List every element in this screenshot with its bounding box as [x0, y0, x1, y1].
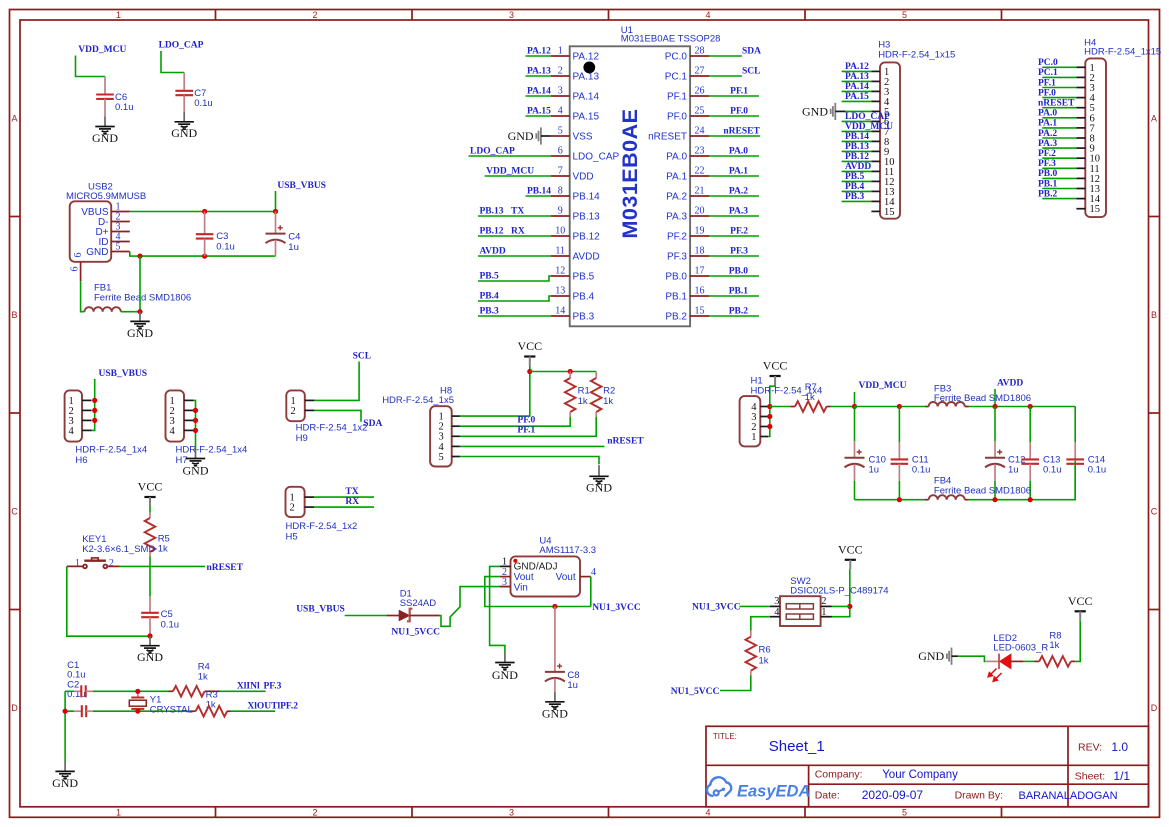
svg-text:PB.14: PB.14 [573, 192, 601, 203]
junction VCC node [527, 369, 532, 374]
wire net PA.13 to U1 pin 2 [526, 75, 551, 77]
svg-text:1k: 1k [578, 396, 588, 407]
wire net PA.12 to U1 pin 1 [526, 55, 551, 57]
svg-text:2: 2 [558, 66, 563, 77]
wire U4 pin1 to GND [490, 566, 505, 652]
svg-text:AVDD: AVDD [845, 162, 871, 172]
wire net PB.1 to H4 pin 13 [1042, 188, 1076, 190]
net label PA.15 at H3 [845, 92, 869, 102]
wire bottom rail right of FB4 [969, 461, 1076, 500]
svg-text:0.1u: 0.1u [194, 98, 213, 109]
net flag nRESET at H8 [607, 437, 644, 447]
regulator U4 AMS1117-3.3 [500, 536, 596, 597]
U1 pin 18 PF.3 [667, 246, 709, 263]
wire R5 to C5 through nRESET node [149, 557, 151, 597]
svg-text:2: 2 [290, 503, 295, 514]
svg-text:6: 6 [73, 253, 84, 258]
U1 pin 16 PB.1 [665, 286, 709, 303]
svg-text:XlOUTlPF.2: XlOUTlPF.2 [247, 701, 298, 711]
net label PF.0 [730, 107, 748, 117]
wire net PF.0 to H4 pin 4 [1042, 97, 1076, 99]
svg-text:PB.13: PB.13 [573, 212, 601, 223]
net flag nRESET at KEY1 [207, 563, 244, 573]
svg-text:SDA: SDA [742, 46, 761, 56]
svg-text:B: B [11, 310, 17, 320]
svg-text:M031EB0AE: M031EB0AE [618, 109, 642, 239]
svg-text:BARANALADOGAN: BARANALADOGAN [1019, 790, 1118, 802]
U1 pin 15 PB.2 [665, 306, 709, 323]
svg-text:5: 5 [902, 10, 907, 20]
svg-text:PA.1: PA.1 [729, 167, 748, 177]
ground below C5 [137, 636, 163, 664]
junctions H7 pins 2-4 [193, 408, 198, 433]
svg-text:PA.12: PA.12 [527, 47, 551, 57]
svg-text:PA.2: PA.2 [1038, 129, 1057, 139]
svg-text:PF.2: PF.2 [667, 232, 687, 243]
svg-text:0.1u: 0.1u [216, 241, 235, 252]
wire USB_VBUS down H6 pins [92, 379, 95, 430]
net label nRESET at H4 [1038, 99, 1075, 109]
net flag USB_VBUS top [277, 181, 326, 191]
net label PF.1 at H4 [1038, 78, 1056, 88]
resistor R1 1k [565, 372, 590, 418]
net flag SDA [363, 419, 382, 429]
svg-text:PF.0: PF.0 [1038, 88, 1056, 98]
svg-text:0.1u: 0.1u [161, 619, 180, 630]
svg-text:LDO_CAP: LDO_CAP [470, 147, 515, 157]
junction VDD_MCU C10 [852, 404, 857, 409]
svg-text:PA.14: PA.14 [573, 92, 600, 103]
svg-text:SS24AD: SS24AD [400, 598, 437, 609]
svg-text:B: B [1151, 310, 1157, 320]
wire H7 pins to GND [194, 400, 196, 448]
ground at U1 pin 5 VSS [508, 127, 551, 144]
net label PB.5 at H3 [845, 172, 865, 182]
svg-text:Date:: Date: [815, 790, 840, 802]
svg-text:10: 10 [555, 226, 565, 237]
svg-text:VCC: VCC [763, 359, 788, 373]
svg-text:VCC: VCC [838, 542, 863, 556]
svg-text:PF.0: PF.0 [517, 416, 535, 426]
svg-text:H9: H9 [296, 433, 308, 444]
wire net PA.3 to H4 pin 9 [1042, 147, 1076, 149]
connector H6 HDR-F-2.54_1x4 [65, 390, 148, 466]
U1 pin 24 nRESET [648, 126, 709, 143]
capacitor C1 [65, 685, 93, 697]
wire net LDO_CAP to U1 pin 6 [469, 155, 551, 157]
svg-text:PB.4: PB.4 [573, 292, 595, 303]
net flag USB_VBUS at H6 [99, 369, 148, 379]
net label PF.1 [730, 87, 748, 97]
wire H9 pin2 SDA [314, 410, 361, 421]
svg-text:5: 5 [902, 808, 907, 818]
svg-text:Drawn By:: Drawn By: [955, 790, 1003, 802]
junction C13 bottom [1028, 497, 1033, 502]
svg-text:0.1u: 0.1u [115, 102, 134, 113]
junction C5 bottom [147, 633, 152, 638]
svg-text:K2-3.6×6.1_SMD: K2-3.6×6.1_SMD [82, 544, 155, 555]
net label PB.2 [729, 307, 749, 317]
wire VCC to H8 pin1 [460, 366, 530, 416]
svg-text:PB.2: PB.2 [665, 312, 687, 323]
svg-text:0.1u: 0.1u [1088, 464, 1107, 475]
wire net PF.2 from U1 pin 19 [709, 235, 759, 237]
junction C11 top [897, 404, 902, 409]
wire net PB.14 to H3 pin 8 [842, 140, 872, 142]
wire net AVDD to U1 pin 11 [478, 255, 551, 257]
svg-text:9: 9 [558, 206, 563, 217]
capacitor C5 [141, 596, 179, 636]
net label PA.15 [527, 107, 551, 117]
U1 pin 7 VDD [551, 166, 594, 183]
junction crystal bottom [135, 709, 140, 714]
svg-text:VDD_MCU: VDD_MCU [78, 45, 126, 55]
net label PA.3 [729, 207, 748, 217]
net label LDO_CAP [470, 147, 515, 157]
wire H1 pin4 to R7 [770, 406, 791, 408]
net label PA.0 [729, 147, 748, 157]
svg-text:HDR-F-2.54_1x4: HDR-F-2.54_1x4 [75, 444, 147, 455]
svg-text:M031EB0AE TSSOP28: M031EB0AE TSSOP28 [621, 34, 721, 45]
svg-text:26: 26 [695, 86, 705, 97]
connector H5 HDR-F-2.54_1x2 [286, 487, 358, 543]
net label PF.1 [517, 426, 535, 436]
switch SW2 DSIC02LS-P_C489174 [770, 576, 889, 626]
junctions H1 pins [767, 404, 772, 429]
net flag LDO_CAP [159, 41, 204, 51]
svg-text:LED-0603_R: LED-0603_R [993, 643, 1048, 654]
pushbutton KEY1 K2-3.6x6.1_SMD [67, 534, 156, 569]
power flag VCC above H1 [763, 359, 788, 386]
U1 pin 22 PA.1 [666, 166, 709, 183]
svg-text:PA.12: PA.12 [845, 62, 869, 72]
wire H8 pin5 to GND [460, 457, 599, 465]
net label PB.12 at H3 [845, 152, 869, 162]
svg-text:R6: R6 [759, 645, 771, 656]
svg-text:nRESET: nRESET [1038, 99, 1075, 109]
svg-text:NU1_5VCC: NU1_5VCC [391, 628, 440, 638]
wire LED2 to R8 [1024, 660, 1035, 662]
svg-text:2: 2 [312, 10, 317, 20]
svg-text:C: C [11, 507, 18, 517]
wire net PB.1 from U1 pin 16 [709, 295, 759, 297]
net label PB.14 at H3 [845, 132, 869, 142]
net flag USB_VBUS at D1 [296, 605, 345, 615]
wire net PF.0 from U1 pin 25 [709, 115, 759, 117]
wire net PB.2 to H4 pin 14 [1042, 198, 1076, 200]
ground at H3 pin 5 [802, 103, 871, 120]
ground below H8 pin5 [586, 465, 612, 495]
wire net nRESET to H4 pin 5 [1042, 107, 1076, 109]
svg-text:PB.12: PB.12 [845, 152, 869, 162]
net label AVDD [480, 247, 506, 257]
net flag VDD_MCU at rail [855, 381, 907, 406]
wire net PB.3 to U1 pin 14 [478, 315, 551, 317]
svg-text:PA.2: PA.2 [729, 187, 748, 197]
svg-text:PF.1: PF.1 [517, 426, 535, 436]
svg-text:Your Company: Your Company [882, 769, 958, 781]
U1 pin 10 PB.12 [551, 226, 600, 243]
wire H5 pin1 TX [314, 496, 374, 498]
svg-text:PF.3: PF.3 [667, 252, 687, 263]
net label PB.13 [480, 207, 525, 217]
resistor R8 1k [1035, 631, 1076, 667]
wire net PB.13 to U1 pin 9 [478, 215, 551, 217]
ferrite bead FB1 [85, 283, 192, 312]
net label PA.12 [527, 47, 551, 57]
IC U1 M031EB0AE TSSOP28 [570, 25, 721, 327]
net flag AVDD [995, 379, 1023, 407]
svg-text:4: 4 [705, 10, 710, 20]
net flag NU1_3VCC at SW2 [692, 602, 741, 612]
wire net PC.1 to H4 pin 2 [1042, 76, 1076, 78]
svg-text:H5: H5 [286, 532, 298, 543]
wire net PB.2 from U1 pin 15 [709, 315, 759, 317]
svg-text:25: 25 [695, 106, 705, 117]
wire XIN line [93, 690, 169, 692]
svg-text:GND: GND [918, 649, 944, 663]
svg-text:PF.1: PF.1 [667, 92, 687, 103]
svg-text:nRESET: nRESET [607, 437, 644, 447]
svg-text:1k: 1k [805, 392, 815, 403]
svg-text:C3: C3 [216, 231, 228, 242]
diode D1 SS24AD [387, 588, 440, 621]
svg-text:1: 1 [75, 558, 80, 569]
svg-text:HDR-F-2.54_1x15: HDR-F-2.54_1x15 [878, 49, 955, 60]
wire net nRESET from U1 pin 24 [709, 135, 760, 137]
svg-text:15: 15 [1090, 204, 1101, 215]
wire VDD_MCU to C6 [76, 56, 106, 77]
svg-text:PB.4: PB.4 [845, 182, 865, 192]
svg-text:VCC: VCC [1068, 594, 1093, 608]
net label PA.2 at H4 [1038, 129, 1057, 139]
net label PA.1 at H4 [1038, 119, 1057, 129]
svg-text:4: 4 [170, 426, 176, 437]
svg-text:5: 5 [558, 126, 563, 137]
svg-text:1u: 1u [1008, 464, 1019, 475]
U1 pin 26 PF.1 [667, 86, 709, 103]
power flag VCC above R8 [1068, 594, 1093, 621]
wire net PF.3 from U1 pin 18 [709, 255, 759, 257]
wire net LDO_CAP to H3 pin 6 [842, 120, 872, 122]
U1 pin 23 PA.0 [666, 146, 709, 163]
U1 pin 13 PB.4 [551, 286, 595, 303]
svg-text:SCL: SCL [353, 352, 371, 362]
svg-text:PA.0: PA.0 [729, 147, 748, 157]
svg-text:RX: RX [345, 497, 359, 507]
svg-text:GND: GND [127, 326, 153, 340]
svg-text:PB.2: PB.2 [1038, 189, 1058, 199]
frame column numbers bottom [116, 808, 907, 818]
svg-text:3: 3 [558, 86, 563, 97]
svg-text:PA.13: PA.13 [527, 67, 551, 77]
frame row letters [11, 114, 1158, 714]
svg-text:22: 22 [695, 166, 705, 177]
wire H8 pin4 nRESET [460, 445, 605, 447]
net label SDA [742, 46, 761, 56]
capacitor C11 [891, 407, 931, 500]
ground below FB1 [127, 312, 153, 340]
svg-text:PC.0: PC.0 [1038, 58, 1058, 68]
svg-text:PA.0: PA.0 [1038, 109, 1057, 119]
U1 pin 21 PA.2 [666, 186, 709, 203]
U1 pin 28 PC.0 [665, 46, 710, 63]
svg-text:D: D [1151, 703, 1158, 713]
svg-text:USB_VBUS: USB_VBUS [296, 605, 345, 615]
svg-text:1u: 1u [567, 680, 578, 691]
svg-text:PB.5: PB.5 [480, 272, 500, 282]
svg-text:A: A [11, 114, 17, 124]
svg-text:PC.1: PC.1 [665, 72, 688, 83]
svg-text:PA.15: PA.15 [573, 112, 600, 123]
net label PB.12 [480, 227, 525, 237]
svg-text:HDR-F-2.54_1x2: HDR-F-2.54_1x2 [286, 521, 358, 532]
wire net PA.1 from U1 pin 22 [709, 175, 759, 177]
net label PB.5 [480, 272, 500, 282]
svg-text:5: 5 [116, 242, 121, 253]
wire KEY1 pin1 loop down [67, 566, 150, 636]
power flag VCC above SW2 [838, 542, 863, 569]
svg-text:EasyEDA: EasyEDA [737, 783, 810, 801]
wire net PA.14 to U1 pin 3 [526, 95, 551, 97]
resistor R5 1k [145, 513, 170, 557]
svg-text:VSS: VSS [573, 132, 593, 143]
wire GND jog from USB pin5 [130, 252, 276, 257]
svg-text:REV:: REV: [1078, 742, 1102, 754]
power flag VCC above R5 [138, 479, 163, 506]
wire LDO_CAP to C7 [161, 51, 184, 73]
wire net PF.3 to H4 pin 11 [1042, 167, 1076, 169]
net label PF.2 [730, 227, 748, 237]
svg-text:PF.3: PF.3 [1038, 159, 1056, 169]
wire net PA.3 from U1 pin 20 [709, 215, 759, 217]
capacitor C8 polarized [545, 607, 580, 693]
wire net PB.0 from U1 pin 17 [709, 275, 759, 277]
svg-text:4: 4 [69, 426, 75, 437]
wire net PA.13 to H3 pin 2 [842, 80, 872, 82]
svg-text:SDA: SDA [363, 419, 382, 429]
net label PF.3 [730, 247, 748, 257]
net label PA.1 [729, 167, 748, 177]
svg-text:13: 13 [555, 286, 565, 297]
svg-text:USB_VBUS: USB_VBUS [99, 369, 148, 379]
svg-text:GND: GND [802, 104, 828, 118]
net label PB.4 [480, 292, 500, 302]
svg-text:HDR-F-2.54_1x2: HDR-F-2.54_1x2 [296, 422, 368, 433]
capacitor C10 polarized [845, 407, 886, 500]
wire net PF.1 to H4 pin 3 [1042, 87, 1076, 89]
net label PC.1 at H4 [1038, 68, 1058, 78]
wire GND rail down [139, 256, 141, 312]
net label PB.3 at H3 [845, 192, 865, 202]
net label PA.14 at H3 [845, 82, 869, 92]
svg-text:Vout: Vout [514, 572, 534, 583]
net label PB.13 at H3 [845, 142, 869, 152]
net label PB.14 [527, 187, 551, 197]
svg-text:NU1_3VCC: NU1_3VCC [692, 602, 741, 612]
svg-text:PB.13: PB.13 [480, 207, 504, 217]
net label VDD_MCU [486, 167, 534, 177]
svg-text:14: 14 [555, 306, 565, 317]
svg-text:PA.13: PA.13 [845, 72, 869, 82]
svg-text:5: 5 [439, 452, 444, 463]
svg-text:27: 27 [695, 66, 705, 77]
svg-text:4: 4 [558, 106, 563, 117]
wire net PB.5 to U1 pin 12 [478, 276, 551, 281]
wire bottom rail left of FB4 [855, 499, 926, 501]
wire H8 pin3 PF.1 to R2 [460, 417, 596, 436]
svg-text:PF.3: PF.3 [730, 247, 748, 257]
svg-text:TX: TX [511, 207, 524, 217]
svg-text:PA.15: PA.15 [527, 107, 551, 117]
ground below C7 [171, 112, 197, 140]
svg-text:PB.3: PB.3 [845, 192, 865, 202]
svg-text:15: 15 [695, 306, 705, 317]
wire net SCL from U1 pin 27 [709, 75, 742, 77]
svg-text:PB.2: PB.2 [729, 307, 749, 317]
wire net PB.4 to U1 pin 13 [478, 296, 551, 301]
svg-text:20: 20 [695, 206, 705, 217]
svg-text:Ferrite Bead SMD1806: Ferrite Bead SMD1806 [94, 292, 191, 303]
svg-text:0.1u: 0.1u [1043, 464, 1062, 475]
svg-text:PF.2: PF.2 [730, 227, 748, 237]
U1 pin 6 LDO_CAP [551, 146, 620, 163]
wire USB_VBUS down to VBUS rail [275, 191, 277, 212]
wire R7 to VDD_MCU node [831, 406, 855, 408]
junctions H6 pins 1-3 [92, 398, 97, 423]
net label SCL [742, 66, 760, 76]
wire D1 to U4 Vin [440, 587, 509, 627]
U1 pin 2 PA.13 [551, 66, 600, 83]
svg-text:PA.1: PA.1 [666, 172, 687, 183]
svg-text:Sheet_1: Sheet_1 [769, 738, 825, 755]
wire VBUS rail [130, 211, 276, 213]
U1 pin 9 PB.13 [551, 206, 600, 223]
svg-text:VCC: VCC [517, 339, 542, 353]
svg-text:PA.12: PA.12 [573, 52, 600, 63]
svg-text:AVDD: AVDD [997, 379, 1023, 389]
LED LED2 LED-0603 [985, 633, 1048, 681]
wire net PA.0 from U1 pin 23 [709, 155, 759, 157]
svg-text:1/1: 1/1 [1113, 769, 1130, 783]
svg-text:PA.3: PA.3 [666, 212, 687, 223]
svg-text:LDO_CAP: LDO_CAP [845, 112, 890, 122]
U1 pin 20 PA.3 [666, 206, 709, 223]
net label nRESET [723, 127, 760, 137]
ground below C8 [542, 692, 568, 720]
svg-text:H6: H6 [75, 455, 87, 466]
svg-text:PF.3: PF.3 [264, 681, 282, 691]
ground below C6 [92, 116, 118, 144]
wire net VDD_MCU to H3 pin 7 [842, 130, 872, 132]
net label PA.13 [527, 67, 551, 77]
svg-text:D: D [11, 703, 18, 713]
junction FB1 output [137, 309, 142, 314]
wire net PF.1 from U1 pin 26 [709, 95, 759, 97]
resistor R6 1k [746, 631, 771, 676]
junction C13 top [1028, 404, 1033, 409]
net flag NU1_5VCC at D1 [391, 628, 440, 638]
net label PB.3 [480, 307, 500, 317]
title block [706, 726, 1149, 807]
net label PA.3 at H4 [1038, 139, 1057, 149]
svg-text:2020-09-07: 2020-09-07 [862, 788, 924, 802]
svg-text:VDD_MCU: VDD_MCU [859, 381, 907, 391]
svg-text:3: 3 [774, 596, 779, 607]
svg-text:PA.3: PA.3 [729, 207, 748, 217]
U1 pin 25 PF.0 [667, 106, 709, 123]
svg-text:nRESET: nRESET [207, 563, 244, 573]
